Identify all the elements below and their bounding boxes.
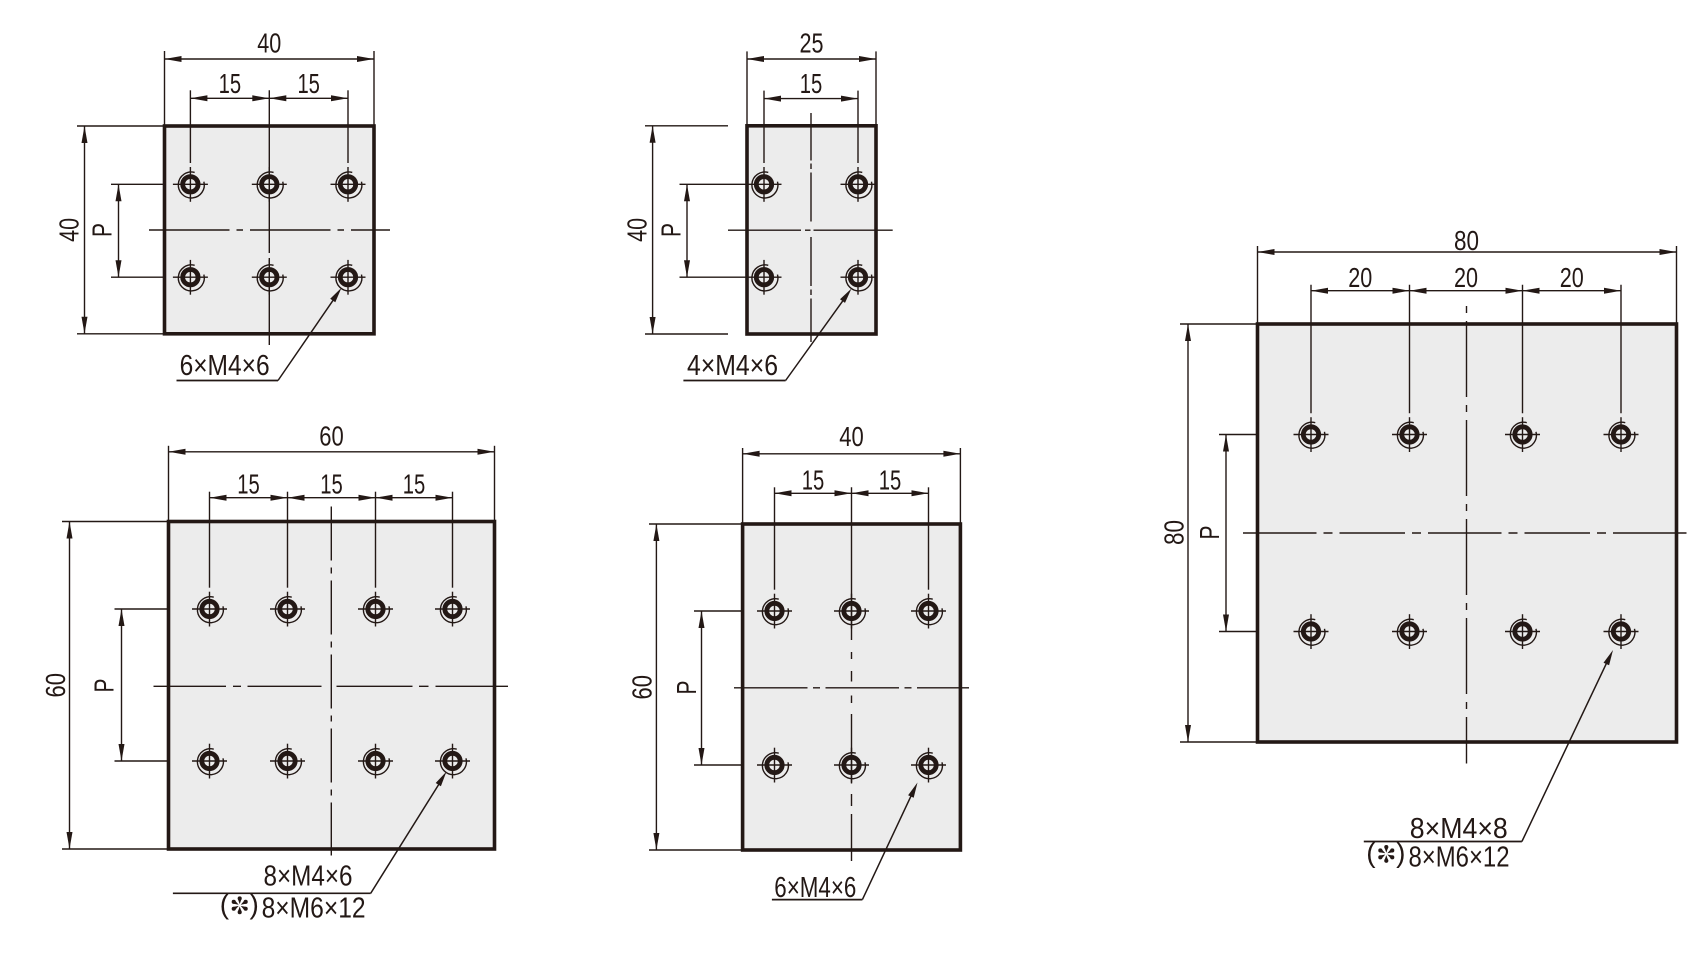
svg-text:60: 60 — [40, 673, 71, 698]
svg-text:15: 15 — [802, 464, 825, 495]
svg-text:): ) — [1396, 837, 1405, 868]
svg-text:P: P — [87, 223, 118, 237]
svg-text:40: 40 — [839, 421, 864, 452]
svg-text:P: P — [656, 223, 687, 237]
svg-text:15: 15 — [297, 68, 320, 99]
svg-text:40: 40 — [622, 218, 653, 242]
svg-text:60: 60 — [627, 675, 658, 700]
svg-text:(: ( — [1366, 837, 1376, 868]
svg-text:P: P — [1194, 526, 1225, 540]
svg-text:80: 80 — [1454, 225, 1479, 256]
svg-text:(: ( — [220, 889, 230, 920]
svg-text:P: P — [671, 681, 702, 695]
svg-text:8×M6×12: 8×M6×12 — [262, 893, 366, 925]
svg-text:40: 40 — [257, 27, 281, 58]
svg-text:15: 15 — [320, 468, 343, 499]
svg-text:4×M4×6: 4×M4×6 — [687, 350, 778, 382]
svg-text:25: 25 — [800, 27, 824, 58]
svg-text:20: 20 — [1560, 262, 1584, 293]
svg-text:80: 80 — [1159, 520, 1190, 545]
svg-text:20: 20 — [1348, 262, 1372, 293]
svg-text:): ) — [250, 889, 259, 920]
svg-text:6×M4×6: 6×M4×6 — [180, 350, 270, 382]
svg-text:60: 60 — [319, 420, 344, 451]
svg-text:15: 15 — [237, 468, 260, 499]
svg-text:8×M6×12: 8×M6×12 — [1409, 841, 1510, 873]
svg-text:15: 15 — [800, 68, 823, 99]
svg-text:15: 15 — [879, 464, 902, 495]
svg-text:15: 15 — [403, 468, 426, 499]
svg-text:40: 40 — [54, 218, 85, 242]
svg-text:15: 15 — [219, 68, 242, 99]
svg-text:20: 20 — [1454, 262, 1478, 293]
svg-text:P: P — [89, 679, 120, 693]
svg-text:8×M4×6: 8×M4×6 — [264, 861, 353, 893]
svg-text:8×M4×8: 8×M4×8 — [1410, 813, 1508, 845]
